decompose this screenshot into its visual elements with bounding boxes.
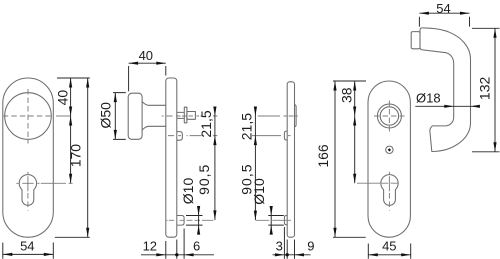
dimension 21,5 / 90,5 chain line	[254, 107, 256, 221]
lower cylinder bump back	[177, 216, 184, 226]
centerline upper screw axis	[252, 135, 291, 137]
handle outline	[420, 28, 471, 152]
dimension Ø10 line	[198, 206, 200, 234]
spindle flange	[184, 107, 187, 123]
dimension 54 extensions	[419, 17, 469, 27]
svg-text:Ø18: Ø18	[416, 90, 441, 105]
handle boss strip back	[295, 105, 297, 127]
keyhole K1 euro profile	[19, 175, 36, 206]
svg-text:170: 170	[68, 144, 84, 168]
upper screw bump back	[177, 132, 183, 141]
dimension 12/6 line	[141, 254, 214, 256]
plate P1 side slab	[166, 78, 177, 237]
centerline lower cylinder axis	[167, 219, 214, 221]
plate P2 side slab	[287, 82, 294, 237]
svg-text:12: 12	[143, 238, 157, 253]
svg-text:6: 6	[193, 238, 200, 253]
svg-text:9: 9	[307, 238, 314, 253]
dimension Ø10 extension lines	[268, 216, 284, 226]
plate P2 outline	[368, 81, 410, 237]
svg-text:90,5: 90,5	[196, 164, 212, 195]
dimension 54 bottom: extension lines	[3, 243, 54, 259]
centerline keyhole vertical	[388, 172, 390, 191]
lower cylinder head front	[284, 216, 287, 225]
dimension 54 line	[3, 253, 54, 255]
knob neck top edge	[142, 102, 166, 106]
dimension 45 extensions	[368, 244, 410, 259]
svg-text:40: 40	[139, 48, 153, 63]
dimension Ø50 ticks and line	[113, 93, 126, 140]
spindle square end	[187, 112, 196, 120]
centerline keyhole vertical	[27, 172, 29, 191]
handle hole Ø18	[380, 107, 398, 125]
spindle shaft segment	[177, 112, 185, 118]
dimension Ø18 leader line	[415, 105, 479, 107]
dimension 38 line	[354, 81, 356, 116]
handle boss ring	[377, 104, 401, 128]
extension line plate top	[57, 77, 90, 79]
dimension Ø10 line	[270, 206, 272, 234]
svg-text:Ø10: Ø10	[180, 178, 196, 205]
dimension 166 line	[334, 81, 336, 237]
centerline spindle axis	[162, 115, 218, 117]
svg-text:40: 40	[55, 90, 71, 106]
svg-text:21,5: 21,5	[198, 110, 214, 137]
dimension Ø10 extension lines	[186, 216, 203, 226]
dimension 45 line	[368, 254, 410, 256]
centerline spindle axis	[258, 115, 298, 117]
svg-text:132: 132	[476, 77, 492, 101]
centerline upper screw axis	[168, 135, 217, 137]
dimension 40 line	[70, 78, 72, 116]
dimension 170 line	[87, 78, 89, 237]
svg-text:3: 3	[276, 238, 283, 253]
dimension 40 extension right	[165, 66, 167, 76]
centerline knob vertical	[27, 89, 29, 144]
handle collar	[411, 32, 420, 49]
svg-text:21,5: 21,5	[238, 113, 254, 140]
dimension 40 line	[129, 62, 166, 64]
centerline hole horizontal	[374, 115, 405, 117]
keyhole K2 euro profile	[381, 175, 398, 206]
knob circle Ø50	[5, 93, 52, 140]
dimension 132 line	[494, 28, 496, 152]
dimension chain knob-to-key line	[70, 116, 72, 183]
plate P1 outline	[3, 78, 54, 237]
dimension 132 extensions	[472, 28, 500, 152]
dimension 21,5 / 90,5 chain line	[214, 107, 216, 221]
extension line plate top	[333, 80, 366, 82]
svg-text:38: 38	[338, 87, 354, 103]
centerline cylinder axis	[256, 219, 291, 221]
centerline keyhole horizontal	[16, 182, 72, 184]
bottom extensions 3/9	[284, 227, 294, 259]
dimension chain hole-to-key line	[354, 116, 356, 183]
bottom extensions 12/6	[166, 229, 184, 259]
centerline knob horizontal	[3, 115, 54, 117]
svg-text:54: 54	[436, 1, 450, 16]
extension line plate bottom	[55, 236, 90, 238]
dimension 40 extension left	[128, 66, 130, 91]
extension line plate bottom	[333, 236, 366, 238]
dimension 3/9 line	[273, 254, 311, 256]
svg-text:Ø50: Ø50	[97, 102, 113, 129]
svg-text:166: 166	[315, 144, 331, 168]
upper screw head front	[284, 131, 287, 140]
centerline keyhole horizontal	[357, 182, 398, 184]
knob neck bottom edge	[142, 126, 166, 130]
svg-text:45: 45	[382, 238, 396, 253]
svg-text:54: 54	[20, 238, 34, 253]
screw S1	[386, 146, 393, 153]
centerline hole vertical	[388, 101, 390, 132]
knob head side	[128, 93, 142, 139]
dimension 54 line	[419, 12, 469, 14]
svg-text:Ø10: Ø10	[251, 178, 267, 205]
